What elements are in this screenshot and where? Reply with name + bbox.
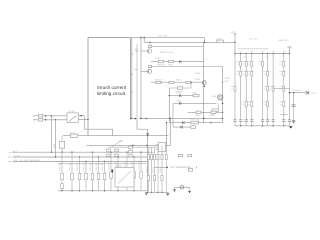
node x222-a (222, 103, 224, 105)
wire stby drop 5 (161, 145, 163, 192)
node ac-a (51, 115, 53, 117)
wire emi drop 4 (85, 162, 87, 191)
stby component 6 (165, 154, 167, 159)
node top-B (143, 37, 145, 39)
fuse F102 (191, 121, 199, 124)
node outf (293, 92, 294, 93)
svg-text:ZNR: ZNR (53, 143, 56, 148)
ground ladder (289, 126, 293, 128)
svg-text:R31: R31 (242, 60, 245, 63)
node ntc-b (147, 135, 148, 136)
node acbus-14 (140, 152, 141, 153)
capacitor bank C6 (266, 120, 269, 122)
emi component C4 (97, 173, 100, 179)
fuse F2 (38, 119, 42, 122)
node acbus-4 (71, 152, 72, 153)
ac live end tick (33, 115, 35, 117)
svg-text:R905 1k2 C45: R905 1k2 C45 (160, 51, 174, 54)
wire rail x147.6 lower (147, 136, 149, 192)
stby component 5 (161, 154, 163, 159)
wire ladder rail 1 (234, 54, 236, 120)
capacitor CX7 (129, 155, 133, 157)
resistor R120 (193, 94, 199, 96)
svg-text:10k: 10k (242, 73, 245, 76)
resistor R106 (159, 60, 164, 62)
node acbus-9 (104, 161, 105, 162)
wire relay out2 (78, 119, 88, 121)
inductor L102 (217, 40, 224, 43)
ground led-1 (173, 190, 176, 192)
wire led stub R (189, 187, 191, 191)
emi component R3 (103, 173, 106, 179)
wire emi drop 11 (133, 157, 135, 191)
resistor ladder-b5 (267, 71, 269, 76)
wire gate bus y82.5 (151, 81, 202, 83)
wire stub x191 (190, 83, 192, 89)
svg-text:F101 6.3A: F101 6.3A (158, 35, 169, 38)
node emi-b3 (79, 190, 80, 191)
resistor ladder-b1 (240, 71, 242, 76)
wire opto pin1 (156, 144, 158, 146)
node acbus-6 (85, 161, 86, 162)
svg-text:C104 104: C104 104 (95, 162, 98, 172)
capacitor bank C5 (261, 120, 264, 122)
wire opto pin2 (156, 149, 158, 151)
wire emi drop 6 (98, 157, 100, 191)
node top-C (204, 42, 206, 44)
wire fb bus y95.6 (169, 95, 199, 97)
capacitor C115 (191, 126, 196, 129)
svg-text:R34: R34 (242, 100, 245, 103)
resistor ladder-c7 (283, 86, 285, 91)
wire rail x173 (172, 103, 174, 127)
resistor ladder-d5 (267, 102, 269, 107)
resistor R127 (211, 111, 216, 113)
node sec-b (170, 118, 171, 119)
diode D101 (179, 60, 181, 63)
5vsb end tick (195, 166, 197, 168)
node ladder bottom 5 (283, 125, 284, 126)
resistor ladder-a1 (240, 61, 242, 66)
wire bus y112.3 (188, 111, 223, 113)
node acbus-8 (98, 156, 99, 157)
varistor ZNR101 (59, 141, 64, 148)
wire ladder rail 6 foot (267, 121, 269, 126)
node acbus-11 (117, 156, 118, 157)
svg-text:C104 104: C104 104 (138, 161, 141, 171)
relay contact (69, 116, 76, 122)
inrush limiter block right edge (129, 38, 131, 119)
wire fb bus y103 (173, 102, 217, 104)
wire box-bottom link (130, 118, 137, 120)
wire ladder rail 3 foot (245, 121, 247, 126)
svg-text:C10: C10 (129, 144, 132, 147)
svg-text:C33: C33 (279, 85, 282, 88)
svg-text:C10: C10 (115, 152, 118, 155)
node 5vsb (166, 167, 168, 169)
wire ladder bottom rail (235, 125, 290, 127)
inrush limiter block left edge (87, 38, 89, 136)
wire stby feed across (137, 128, 148, 130)
resistor R110 (186, 81, 191, 83)
wire aux y122.6 (169, 122, 222, 124)
node x169-a (169, 95, 170, 96)
emi component C1 (61, 173, 64, 179)
svg-text:L102: L102 (216, 37, 222, 40)
wire output y92.7 (290, 92, 309, 94)
svg-text:C905: C905 (155, 57, 160, 60)
node ladder top 4 (251, 53, 252, 54)
wire rail x166.5 (166, 123, 168, 148)
wire emi drop 12 (140, 152, 142, 191)
stby component 1 (148, 154, 150, 159)
node output (289, 92, 291, 94)
resistor R111 (178, 87, 183, 89)
wire ladder rail 8 (283, 54, 285, 120)
wire ladder link y88 (273, 87, 289, 89)
ac bus PE end tick (13, 160, 15, 162)
node y118-c (203, 118, 204, 119)
wire ladder rail 3 (245, 54, 247, 120)
svg-text:C104 104: C104 104 (108, 161, 111, 171)
thermistor RT101 (70, 134, 77, 137)
svg-text:10k: 10k (263, 73, 266, 76)
resistor R125 (212, 109, 218, 111)
svg-text:C104 104: C104 104 (89, 162, 92, 172)
wire bypass drop x51.4 (50, 116, 52, 152)
svg-text:N_IN: N_IN (15, 154, 20, 157)
wire ladder rail 9 (289, 54, 291, 120)
resistor R108 (156, 81, 161, 83)
node ladder top 8 (283, 53, 284, 54)
wire ladder rail 4 foot (251, 121, 253, 126)
wire box-right rail (131, 38, 133, 119)
node acbus-7 (92, 152, 93, 153)
emi component R5 (133, 172, 136, 178)
node top-D (234, 42, 236, 44)
wire relay bus y129.2 (84, 128, 112, 130)
resistor ladder-b2 (245, 71, 247, 76)
box stub 2 (130, 73, 133, 75)
svg-text:TO_MAIN: TO_MAIN (292, 89, 301, 92)
node acbus-5 (79, 156, 80, 157)
svg-text:R34: R34 (247, 100, 250, 103)
node y118-a (140, 118, 142, 120)
diode D105 (179, 102, 181, 105)
emi component C6 (126, 172, 129, 178)
node stby-2 (157, 192, 158, 193)
capacitor bank C1 (233, 120, 236, 122)
svg-text:C10: C10 (107, 147, 110, 150)
node ladder top 3 (246, 53, 247, 54)
wire emi bottom rail (58, 190, 147, 192)
bridge rectifier BD101 (115, 168, 134, 187)
wire top bus lower (144, 41, 235, 43)
svg-text:C10: C10 (115, 147, 118, 150)
svg-text:R31: R31 (258, 60, 261, 63)
emi component R2 (91, 173, 94, 179)
node y145-c (158, 145, 160, 147)
wire ladder rail 1 foot (234, 121, 236, 126)
node relay-b (87, 119, 88, 120)
box stub 3 (130, 91, 133, 93)
wire rail x136 (136, 44, 138, 119)
resistor ladder-c0 (234, 86, 236, 91)
wire drop x136.3 (136, 119, 138, 130)
node top-A (140, 37, 142, 39)
svg-text:R31: R31 (279, 60, 282, 63)
wire ladder rail 2 foot (240, 121, 242, 126)
box stub 1 (130, 53, 133, 55)
svg-text:1u: 1u (279, 88, 281, 91)
ac pin stub PE (8, 161, 13, 163)
wire ac bus N (14, 156, 155, 158)
svg-text:C10: C10 (107, 152, 110, 155)
wire r125 stub (217, 103, 219, 109)
capacitor bank C4 (250, 120, 253, 122)
+B tick (287, 46, 292, 48)
node x169-b (169, 118, 170, 119)
diode D110 (182, 121, 184, 124)
svg-text:220: 220 (263, 103, 266, 106)
wire rail x222 (222, 66, 224, 122)
svg-text:Inrush current: Inrush current (97, 85, 127, 90)
svg-text:C10: C10 (129, 152, 132, 155)
wire diagonal jumper (111, 140, 122, 147)
node x222-b (222, 118, 224, 120)
net arrow (146, 133, 149, 136)
capacitor C95 (292, 105, 296, 107)
resistor ladder-a4 (262, 61, 264, 66)
transistor Q102 (141, 69, 152, 73)
stby component 1b (148, 175, 150, 180)
stby component 5b (161, 175, 163, 180)
wire y46.4 (152, 45, 204, 47)
ac neutral end tick (33, 119, 35, 121)
wire drop x112.7 (112, 129, 114, 136)
svg-text:R31: R31 (236, 60, 239, 63)
wire znr down (61, 148, 63, 152)
svg-text:C93: C93 (261, 50, 264, 53)
node acbus-3 (61, 152, 62, 153)
transistor Q101 (141, 49, 152, 53)
wire relay out1 (78, 115, 84, 117)
wire ac bus L (13, 151, 153, 153)
wire led stub L (174, 187, 176, 190)
node emi-b7 (133, 190, 134, 191)
node ac-d (45, 119, 47, 121)
capacitor CX4 (115, 154, 119, 156)
wire led y187.3 (175, 186, 190, 188)
wire rail x203 upper (203, 42, 205, 118)
ground output (292, 121, 295, 123)
emi component C1b (61, 184, 64, 189)
svg-text:R32: R32 (242, 70, 245, 73)
ground stby-2 (166, 194, 169, 196)
capacitor bank C3 (245, 120, 248, 122)
node emi-b2 (71, 190, 72, 191)
node y118-b (146, 118, 148, 120)
node ladder top 5 (262, 53, 263, 54)
wire q101 top stub (149, 42, 151, 45)
wire +B riser (289, 47, 291, 54)
wire y88 (169, 87, 191, 89)
resistor ladder-d2 (245, 102, 247, 107)
wire stby bottom rail (146, 191, 168, 193)
wire emi drop 2 (71, 152, 73, 191)
svg-text:C33: C33 (231, 85, 234, 88)
svg-text:10k: 10k (242, 63, 245, 66)
node acbus-13 (133, 156, 134, 157)
optocoupler PC101 (158, 143, 165, 152)
mosfet Q103 (202, 81, 206, 85)
node emi-b1 (61, 190, 62, 191)
emi component C2 (71, 173, 74, 179)
wire ctrl bus y66.4 (152, 65, 223, 67)
resistor ladder-b3 (251, 71, 253, 76)
svg-text:R34: R34 (279, 100, 282, 103)
node ladder bottom 4 (272, 125, 273, 126)
emi component R1 (78, 173, 81, 179)
node y145-a (132, 145, 134, 147)
wire emi drop 10 (126, 152, 128, 191)
wire emi drop 8 (110, 152, 112, 191)
wire rail x170.3 (169, 118, 171, 145)
capacitor CX6 (129, 151, 133, 153)
node y82-b (222, 82, 223, 83)
svg-text:C33: C33 (269, 85, 272, 88)
emi component C5 (110, 172, 113, 178)
wire ntc bus y136.2 (63, 135, 169, 137)
resistor ladder-a2 (245, 61, 247, 66)
resistor ladder-a3 (251, 61, 253, 66)
svg-text:RT101: RT101 (70, 131, 77, 134)
node box-br-a (130, 118, 132, 120)
inrush limiter block top edge (88, 37, 130, 39)
node ladder top 7 (272, 53, 273, 54)
capacitor CX3 (107, 154, 111, 156)
svg-text:R10 1k: R10 1k (159, 167, 162, 173)
svg-text:105c: 105c (265, 56, 269, 59)
svg-text:10k: 10k (236, 63, 239, 66)
svg-text:C33: C33 (263, 85, 266, 88)
wire stby drop 1 (148, 147, 150, 192)
svg-text:CN1: CN1 (311, 92, 316, 95)
wire stub x144 (143, 38, 145, 43)
feedback resistor R140 (178, 154, 183, 156)
ac pin stub L (9, 151, 13, 153)
resistor R103 (148, 46, 151, 48)
wire outf link (280, 113, 288, 115)
svg-text:10k: 10k (236, 73, 239, 76)
svg-text:220: 220 (279, 103, 282, 106)
ac bus L end tick (12, 151, 14, 153)
node acbus-10 (110, 152, 111, 153)
svg-text:R31: R31 (247, 60, 250, 63)
fuse F1 (38, 115, 42, 118)
resistor R109 (169, 81, 174, 83)
wire 5vsb y167.3 (155, 166, 168, 168)
svg-text:R32: R32 (247, 70, 250, 73)
polarity mark (112, 169, 114, 172)
wire gate bus y61.6 (151, 61, 204, 63)
wire rail x169 (168, 88, 170, 123)
indicator LED D130 (180, 186, 183, 189)
node q103 source (204, 85, 206, 87)
stby component 4 (157, 154, 159, 159)
svg-text:K3568: K3568 (195, 72, 202, 75)
svg-text:R918 10: R918 10 (155, 79, 163, 82)
stby component 3b (154, 175, 156, 180)
connector CN102 pins (306, 91, 309, 95)
node ac-c (45, 115, 47, 117)
svg-text:C10: C10 (129, 148, 132, 151)
wire stby drop 6 (165, 147, 167, 192)
node box-br-b (134, 118, 136, 120)
svg-text:PFC: PFC (225, 80, 230, 83)
emi component R4 (117, 172, 120, 178)
wire emi drop 1 (61, 152, 63, 191)
node emi-b5 (104, 190, 105, 191)
ac pin stub N (8, 156, 13, 158)
svg-text:F102 1.5A: F102 1.5A (190, 118, 200, 121)
capacitor C130 (188, 169, 192, 171)
svg-text:1u: 1u (231, 88, 233, 91)
ac bus N end tick (13, 156, 15, 158)
svg-text:C104 104: C104 104 (59, 162, 62, 172)
svg-text:R10 1k: R10 1k (151, 167, 154, 173)
node ladder bottom 3 (262, 125, 263, 126)
wire bus y147.1 (108, 146, 167, 148)
wire ac bus PE (14, 161, 147, 163)
VCC tick (233, 33, 236, 35)
wire aux y127.1 (173, 126, 195, 128)
wire ladder top rail 2 (238, 48, 268, 50)
ground stby-1 (145, 193, 148, 195)
capacitor bank C8 (282, 120, 285, 122)
svg-text:+5V_STANDBY(SB): +5V_STANDBY(SB) (170, 166, 191, 169)
relay RY101 (67, 113, 78, 122)
wire ladder rail 9 foot (289, 121, 291, 126)
wire rail x141 (140, 38, 142, 119)
wire ac bus 4 (58, 163, 146, 165)
ground led-2 (188, 191, 191, 193)
wire top bus upper (130, 37, 204, 39)
capacitor CX1 (107, 150, 111, 152)
svg-text:10k: 10k (258, 63, 261, 66)
wire bypass drop x55.6 (55, 120, 57, 157)
node acbus-12 (126, 152, 127, 153)
stby component 3 (154, 154, 156, 159)
node acbus-1 (51, 152, 52, 153)
node ladder top 6 (267, 53, 268, 54)
node sec-a (166, 122, 167, 123)
wire ladder rail 8 foot (283, 121, 285, 126)
node ladder top 1 (234, 53, 235, 54)
svg-text:C104 104: C104 104 (69, 162, 72, 172)
transistor Q904 (218, 95, 223, 101)
node ladder bottom 2 (251, 125, 252, 126)
stby component 2 (151, 154, 153, 159)
resistor ladder-c6 (272, 86, 274, 91)
svg-text:+388V_PFC: +388V_PFC (278, 39, 290, 42)
node q101 stub (149, 42, 150, 43)
node ladder top 2 (240, 53, 241, 54)
node ladder bottom 1 (240, 125, 241, 126)
wire ladder rail 5 (262, 54, 264, 120)
resistor R126 (196, 111, 201, 113)
svg-text:1u: 1u (263, 88, 265, 91)
